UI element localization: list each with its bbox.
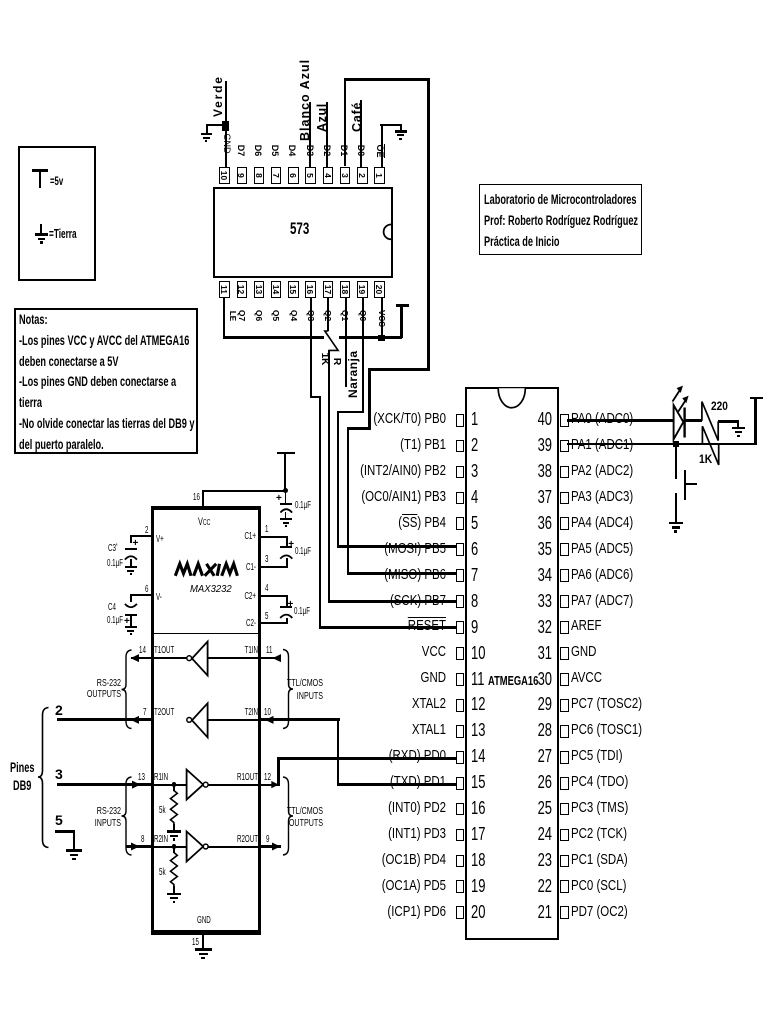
push button lower lead <box>675 493 677 522</box>
ATMEGA16 pin 38 box <box>560 466 569 479</box>
label TTL/CMOS INPUTS (top) <box>285 677 323 703</box>
573 pin 10 label GND <box>222 131 231 156</box>
573 pin 1 box <box>374 167 384 185</box>
573 pin 7 label D5 <box>270 144 279 157</box>
573 pin 11 label LE <box>228 309 236 323</box>
ATMEGA16 pin 6 label (MOSI) PB5 <box>288 542 446 557</box>
R1OUT stub to riser <box>260 784 280 786</box>
wire up to 5V supply <box>284 453 286 491</box>
ATMEGA16 pin 31 label GND <box>571 645 596 660</box>
5k resistor 2 stem <box>173 848 175 853</box>
ATMEGA16 pin 1 box <box>456 414 465 427</box>
wire LE pin11 down <box>223 298 225 339</box>
MAX3232 C2+ label <box>225 592 256 602</box>
wire Q3 pin16 down <box>310 298 312 398</box>
label 0.1uF C2 <box>294 607 310 617</box>
C4 upper stem <box>130 594 132 602</box>
ATMEGA16 pin 14 number <box>471 747 485 765</box>
573 pin 15 box <box>288 281 298 299</box>
ATMEGA16 pin 29 box <box>560 699 569 712</box>
wire pin16 to 5V <box>202 490 286 492</box>
ATMEGA16 pin 40 label PA0 (ADC0) <box>571 412 633 427</box>
ATMEGA16 pin 25 box <box>560 803 569 816</box>
ATMEGA16 pin 30 label AVCC <box>571 671 602 686</box>
R1IN label <box>154 773 168 783</box>
ATMEGA16 pin 1 number <box>471 410 478 428</box>
573 pin 12 number <box>237 282 246 297</box>
ATMEGA16 pin 29 number <box>533 695 552 713</box>
ATMEGA16 pin 32 label AREF <box>571 619 602 634</box>
ATMEGA16 pin 18 number <box>471 851 485 869</box>
573 pin 14 box <box>271 281 281 299</box>
ATMEGA16 pin 7 number <box>471 566 478 584</box>
C1 plus <box>288 540 294 550</box>
573 pin 16 number <box>306 282 315 297</box>
wire to PD0 pin14 <box>277 757 457 760</box>
ATMEGA16 pin 16 label (INT0) PD2 <box>288 801 446 816</box>
573 pin 2 box <box>357 167 367 185</box>
573 pin 18 number <box>340 282 349 297</box>
ATMEGA16 pin 3 box <box>456 466 465 479</box>
MAX3232 pin 10 number <box>264 708 271 718</box>
wire LED to resistor 220 <box>684 419 702 422</box>
ATMEGA16 pin 23 label PC1 (SDA) <box>571 853 628 868</box>
arrowhead R1OUT <box>271 781 279 788</box>
ATMEGA16 pin 27 box <box>560 751 569 764</box>
MAX3232 inner separator <box>153 633 259 634</box>
ATMEGA16 pin 39 label PA1 (ADC1) <box>571 438 633 453</box>
label Naranja (rotated) <box>347 343 359 398</box>
resistor R on Q2 wire <box>325 331 338 350</box>
label 1K right <box>699 455 712 467</box>
wire D1 loop bottom horizontal <box>368 368 430 371</box>
573 pin 17 number <box>323 282 332 297</box>
ATMEGA16 pin 15 label (TXD) PD1 <box>288 775 446 790</box>
Notas box <box>14 308 198 454</box>
MAX3232 pin 1 number <box>265 525 268 535</box>
ground below 5k 2 <box>0 0 768 1</box>
MAX3232 pin 11 number <box>266 646 272 656</box>
LED arrow 1 <box>673 386 684 402</box>
label TTL/CMOS OUTPUTS (bottom) <box>285 805 323 830</box>
R2OUT label <box>227 835 258 845</box>
ground at OE <box>0 0 768 1</box>
label R at resistor (rotated) <box>331 355 342 368</box>
ATMEGA16 pin 6 number <box>471 540 478 558</box>
wire Q0 down to MOSI row <box>337 411 339 548</box>
wire D3 up <box>309 102 311 167</box>
ATMEGA16 pin 36 number <box>533 514 552 532</box>
label DB9 <box>13 779 31 793</box>
ATMEGA16 pin 26 label PC4 (TDO) <box>571 775 628 790</box>
junction square LE/VCC <box>378 335 385 342</box>
wire GND pin10 up <box>225 81 227 167</box>
R1 junction dot <box>172 782 177 787</box>
label 0.1uF C3 <box>107 559 123 569</box>
label Blanco Azul (rotated) <box>299 57 312 141</box>
ATMEGA16 pin 19 box <box>456 880 465 893</box>
MAX3232 pin 4 number <box>265 584 268 594</box>
label Verde (rotated) <box>212 71 224 117</box>
MAX3232 Vcc text <box>198 517 210 528</box>
ATMEGA16 pin 23 box <box>560 855 569 868</box>
LED arrow 2 <box>678 396 688 412</box>
R2 inner line <box>153 846 187 848</box>
573 pin 20 box <box>374 281 384 299</box>
ATMEGA16 pin 17 label (INT1) PD3 <box>288 827 446 842</box>
ATMEGA16 pin 35 label PA5 (ADC5) <box>571 542 633 557</box>
ATMEGA16 pin 39 box <box>560 440 569 453</box>
ground left of pin10 <box>0 0 768 1</box>
T1OUT label <box>154 646 174 656</box>
C1 upper stem <box>286 536 288 546</box>
5V symbol in legend <box>0 0 768 1</box>
C2 plus <box>288 600 294 610</box>
label DB9 pin 3 <box>55 767 63 781</box>
capacitor arc C1 <box>280 555 292 558</box>
5k resistor 2 lower stem <box>173 886 175 893</box>
573 pin 1 number <box>375 168 384 183</box>
ATMEGA16 pin 34 box <box>560 569 569 582</box>
573 pin 6 label D4 <box>287 144 296 157</box>
ATMEGA16 pin 33 label PA7 (ADC7) <box>571 594 633 609</box>
C4 plate <box>125 614 137 616</box>
R1 inner line <box>153 784 187 786</box>
ATMEGA16 pin 2 label (T1) PB1 <box>288 438 446 453</box>
573 pin 2 label D0 <box>356 144 365 157</box>
ATMEGA16 pin 27 label PC5 (TDI) <box>571 749 623 764</box>
legend =Tierra <box>49 228 77 241</box>
label 220 <box>711 402 728 414</box>
MAX3232 V+ label <box>156 535 164 545</box>
push button actuator bar <box>684 470 687 501</box>
arrowhead T2OUT <box>131 716 140 724</box>
5k label 2 <box>159 868 166 878</box>
wire Q3 jog <box>310 396 321 398</box>
ATMEGA16 pin 7 box <box>456 569 465 582</box>
ATMEGA16 notch <box>498 388 525 408</box>
ATMEGA16 pin 26 number <box>533 773 552 791</box>
ATMEGA16 pin 23 number <box>533 851 552 869</box>
MAX3232 pin 6 wire <box>130 594 152 596</box>
MAX3232 pin 2 wire <box>130 535 152 537</box>
T1IN label <box>227 646 258 656</box>
wire 5V riser right <box>754 398 757 446</box>
ATMEGA16 pin 36 box <box>560 517 569 530</box>
ground at 220 <box>0 0 768 1</box>
ATMEGA16 body <box>465 387 559 940</box>
wire PA0 to LED <box>567 419 674 422</box>
ground below button <box>0 0 768 1</box>
MAX3232 pin 13 number <box>138 773 145 783</box>
573 pin 9 number <box>237 168 246 183</box>
ATMEGA16 pin 38 label PA2 (ADC2) <box>571 464 633 479</box>
R2OUT stub <box>260 845 281 847</box>
573 pin 18 box <box>340 281 350 299</box>
R2 junction dot <box>172 844 177 849</box>
ATMEGA16 pin 22 number <box>533 877 552 895</box>
R2IN label <box>154 835 168 845</box>
wire SCK row to pin 8 <box>328 600 457 603</box>
capacitor arc top cap <box>280 509 292 512</box>
MAX3232 pin 16 stub <box>202 490 204 506</box>
capacitor arc C4 <box>125 604 137 607</box>
ATMEGA16 pin 8 box <box>456 595 465 608</box>
ATMEGA16 pin 6 box <box>456 543 465 556</box>
ATMEGA16 pin 24 box <box>560 829 569 842</box>
ATMEGA16 pin 28 box <box>560 725 569 738</box>
wire D2 up <box>326 102 328 167</box>
MAX3232 pin 4 wire <box>260 595 288 597</box>
ATMEGA16 pin 7 label (MISO) PB6 <box>288 568 446 583</box>
arrowhead R2IN <box>131 843 140 851</box>
ATMEGA16 pin 21 box <box>560 906 569 919</box>
ATMEGA16 pin 29 label PC7 (TOSC2) <box>571 697 642 712</box>
MAX3232 pin 5 number <box>265 612 268 622</box>
push button upper lead <box>675 447 677 479</box>
wire 220 to ground <box>718 420 739 422</box>
push button stem <box>686 483 697 485</box>
C2 lower stem <box>286 618 288 624</box>
T2OUT thick line from DB9 pin2 <box>57 718 152 721</box>
top cap plate <box>280 503 292 505</box>
Laboratorio box <box>479 184 642 255</box>
junction square PA1 <box>673 441 679 447</box>
ATMEGA16 pin 17 box <box>456 829 465 842</box>
ATMEGA16 pin 12 number <box>471 695 485 713</box>
573 pin 15 number <box>289 282 298 297</box>
R1 output line <box>208 784 260 786</box>
5k resistor 2 zigzag <box>171 853 178 887</box>
5k resistor 1 stem <box>173 786 175 791</box>
ATMEGA16 pin 34 number <box>533 566 552 584</box>
DB9 pin 5 wire <box>0 0 768 1</box>
573 pin 13 label Q6 <box>255 308 264 323</box>
ATMEGA16 pin 16 number <box>471 799 485 817</box>
ATMEGA16 pin 4 label (OC0/AIN1) PB3 <box>288 490 446 505</box>
ATMEGA16 pin 26 box <box>560 777 569 790</box>
ATMEGA16 pin 40 number <box>533 410 552 428</box>
MAX3232 pin 1 wire <box>260 536 287 538</box>
ATMEGA16 pin 25 label PC3 (TMS) <box>571 801 628 816</box>
573 pin 10 number <box>220 168 229 183</box>
MAX3232 pin 6 number <box>145 585 148 595</box>
573 pin 18 label Q1 <box>341 308 350 323</box>
Laboratorio text <box>484 189 638 252</box>
ATMEGA16 pin 3 number <box>471 462 478 480</box>
label DB9 pin 2 <box>55 703 63 717</box>
arrowhead R2OUT <box>272 843 281 851</box>
5k resistor 1 zigzag <box>171 791 178 825</box>
R2 output line <box>208 846 260 848</box>
MAX3232 pin 8 number <box>141 835 144 845</box>
LED cathode bar <box>683 408 685 438</box>
MAX3232 name <box>190 585 232 595</box>
ATMEGA16 pin 4 number <box>471 488 478 506</box>
573 pin 8 label D6 <box>253 144 262 157</box>
ATMEGA16 pin 2 box <box>456 440 465 453</box>
573 pin 9 label D7 <box>236 144 245 157</box>
inverter R1 <box>187 770 209 800</box>
arrowhead R1IN <box>132 781 141 789</box>
wire D0 up <box>360 100 362 167</box>
brace RS-232 INPUTS <box>122 777 132 855</box>
R1OUT label <box>227 773 258 783</box>
label 0.1uF top cap <box>295 501 311 511</box>
ATMEGA16 pin 13 label XTAL1 <box>288 723 446 738</box>
573 pin 3 label D1 <box>339 144 348 157</box>
C4 lower stem <box>130 616 132 626</box>
ATMEGA16 pin 9 box <box>456 621 465 634</box>
5V supply at 573 <box>0 0 768 1</box>
inverter T1 <box>187 642 208 676</box>
ATMEGA16 pin 8 label (SCK) PB7 <box>288 594 446 609</box>
T2OUT label <box>154 708 174 718</box>
ATMEGA16 pin 11 number <box>471 670 484 688</box>
5V T-bar above MAX <box>277 452 295 455</box>
wire OE up <box>381 124 383 167</box>
ATMEGA16 pin 5 label (SS) PB4 <box>288 516 446 531</box>
MAX3232 bottom bar <box>151 930 261 935</box>
C2 plate <box>280 606 292 608</box>
573 pin 11 number <box>220 282 229 297</box>
ATMEGA16 pin 18 box <box>456 855 465 868</box>
wire Q0 jog left <box>337 411 365 413</box>
573 pin 19 label Q0 <box>358 308 367 323</box>
label 0.1uF C4 <box>107 616 123 626</box>
5V T-bar right <box>750 397 763 400</box>
ATMEGA16 pin 5 box <box>456 517 465 530</box>
ATMEGA16 pin 28 label PC6 (TOSC1) <box>571 723 642 738</box>
ATMEGA16 pin 11 box <box>456 673 465 686</box>
label C4 <box>108 603 116 613</box>
C1 lower stem <box>286 558 288 567</box>
MAX3232 pin 15 stub <box>202 934 204 949</box>
legend =5v <box>50 175 63 187</box>
ATMEGA16 pin 20 number <box>471 903 485 921</box>
573 pin 5 label D3 <box>305 144 314 157</box>
T2IN label <box>227 708 258 718</box>
573 pin 4 number <box>323 168 332 183</box>
ATMEGA16 pin 13 box <box>456 725 465 738</box>
ATMEGA16 pin 8 number <box>471 592 478 610</box>
MAX3232 pin 14 number <box>139 646 146 656</box>
ATMEGA16 pin 34 label PA6 (ADC6) <box>571 568 633 583</box>
wire T2IN down <box>337 718 340 786</box>
ATMEGA16 pin 24 number <box>533 825 552 843</box>
MAX3232 body <box>151 506 261 935</box>
resistor 220 <box>702 402 718 441</box>
ground below C4 <box>0 0 768 1</box>
capacitor arc C2 <box>280 615 292 618</box>
573 pin 11 box <box>219 281 229 299</box>
ATMEGA16 pin 35 number <box>533 540 552 558</box>
573 pin 12 label Q7 <box>237 308 246 323</box>
wire Q2 below resistor <box>328 350 330 603</box>
LED D1 triangle <box>674 405 684 439</box>
junction on GND wire <box>222 121 229 131</box>
resistor 1K <box>702 426 718 465</box>
label DB9 pin 5 <box>55 813 63 827</box>
ground below top cap <box>0 0 768 1</box>
MAX3232 pin 15 number <box>192 938 199 948</box>
ATMEGA16 pin 37 label PA3 (ADC3) <box>571 490 633 505</box>
ATMEGA16 pin 30 number <box>533 670 552 688</box>
wire MOSI row to pin 6 <box>337 545 457 548</box>
573 pin 15 label Q4 <box>289 308 298 323</box>
ATMEGA16 pin 11 label GND <box>288 671 446 686</box>
wire Q1 Naranja down <box>345 298 347 387</box>
ATMEGA16 pin 17 number <box>471 825 485 843</box>
573 pin 10 box <box>219 167 229 185</box>
573 pin 5 box <box>305 167 315 185</box>
brace Pines DB9 <box>38 708 49 848</box>
white patch behind resistor R <box>324 333 339 342</box>
ATMEGA16 pin 18 label (OC1B) PD4 <box>288 853 446 868</box>
ATMEGA16 pin 2 number <box>471 436 478 454</box>
T2 inverter inner line <box>208 719 261 721</box>
ATMEGA16 pin 32 number <box>533 618 552 636</box>
MAX3232 pin 7 number <box>143 708 146 718</box>
C3 plate <box>125 548 137 550</box>
brace RS-232 OUTPUTS <box>122 650 132 729</box>
T1 inverter output line <box>208 657 275 659</box>
573 pin 17 label Q2 <box>324 308 333 323</box>
573 pin 19 box <box>357 281 367 299</box>
ATMEGA16 pin 16 box <box>456 803 465 816</box>
C1 plate <box>280 546 292 548</box>
ATMEGA16 pin 1 label (XCK/T0) PB0 <box>288 412 446 427</box>
ATMEGA16 pin 5 number <box>471 514 478 532</box>
ATMEGA16 pin 35 box <box>560 543 569 556</box>
ATMEGA16 pin 13 number <box>471 721 485 739</box>
label 1K at resistor R (rotated) <box>319 350 329 368</box>
inverter R2 <box>187 832 209 862</box>
573 pin 9 box <box>237 167 247 185</box>
ground below pin 15 <box>0 0 768 1</box>
wire RESET row to pin 9 <box>319 626 456 629</box>
573 pin 16 box <box>305 281 315 299</box>
MAX3232 V- label <box>156 593 162 603</box>
MAX3232 pin 16 number <box>193 493 200 503</box>
ATMEGA16 pin 31 box <box>560 647 569 660</box>
573 pin 13 box <box>254 281 264 299</box>
MAX3232 C2- label <box>225 619 256 629</box>
ATMEGA16 pin 10 number <box>471 644 485 662</box>
MAX3232 GND text <box>197 916 211 926</box>
top cap stem <box>285 491 287 504</box>
C3 upper stem <box>130 535 132 543</box>
ground symbol in legend <box>0 0 768 1</box>
arrowhead T2IN <box>265 716 274 724</box>
MAX3232 pin 3 number <box>265 555 268 565</box>
ATMEGA16 label <box>488 675 538 688</box>
ATMEGA16 pin 20 label (ICP1) PD6 <box>288 905 446 920</box>
MAX3232 pin 2 number <box>145 526 148 536</box>
wire junction to left ground <box>206 124 224 126</box>
label Pines <box>10 761 35 775</box>
MAX3232 top bar <box>151 506 261 511</box>
wire D1 loop to MISO row <box>347 427 349 575</box>
ATMEGA16 pin 32 box <box>560 621 569 634</box>
capacitor arc C3 <box>125 556 137 559</box>
label RS-232 OUTPUTS <box>82 678 121 701</box>
5k label 1 <box>159 806 166 816</box>
wire D1 loop down segment <box>368 368 370 429</box>
ATMEGA16 pin 28 number <box>533 721 552 739</box>
573 label <box>290 220 309 237</box>
wire MISO row to pin 7 <box>347 572 457 575</box>
